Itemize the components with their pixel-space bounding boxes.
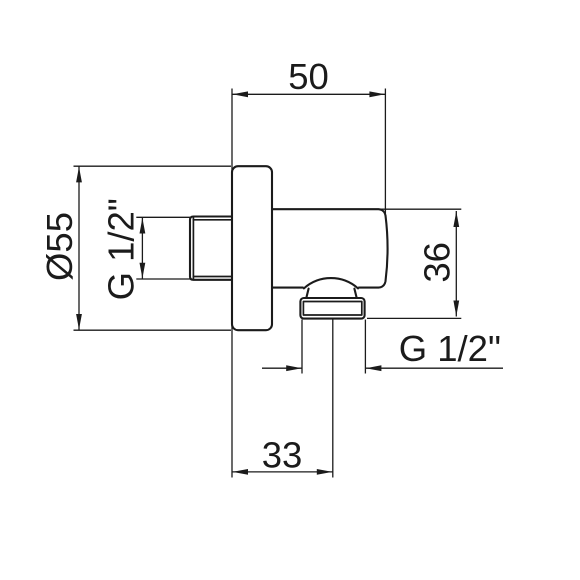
arrowhead dim 36 up	[453, 211, 459, 227]
dimension line G 1/2 bottom, left segment	[262, 367, 302, 369]
arrowhead dim G 1/2 bottom pointing left	[366, 365, 382, 371]
extension line (nut right, for bottom dim G 1/2)	[364, 320, 366, 374]
wall thread G 1/2 (left male connector)	[190, 217, 232, 280]
arrowhead dim G 1/2 left up	[140, 218, 146, 234]
extension line (right end of body, for dim 50)	[384, 89, 386, 215]
extension line (nut left, for bottom dim G 1/2)	[301, 320, 303, 374]
dimension line 36	[455, 211, 457, 317]
svg-text:33: 33	[262, 434, 303, 475]
extension line (outlet axis, for dim 33)	[332, 320, 334, 478]
arrowhead dim 50 right	[369, 91, 385, 97]
svg-text:50: 50	[288, 56, 329, 97]
outlet dome (bell boss on underside of body)	[304, 278, 359, 298]
outlet nut thread G 1/2 (bottom connector)	[300, 298, 364, 319]
extension line (wall face, shared by dims 50 and 33)	[231, 89, 233, 478]
extension line (flange top, for dim Ø55)	[74, 165, 232, 167]
svg-text:Ø55: Ø55	[39, 212, 80, 281]
dimension line 50	[232, 93, 385, 95]
extension line (wall thread bottom, for left dim G 1/2)	[136, 278, 190, 280]
arrowhead dim 50 left	[232, 91, 248, 97]
svg-text:G 1/2": G 1/2"	[399, 328, 501, 369]
dimension line Ø55	[78, 166, 80, 330]
arrowhead dim 36 down	[453, 301, 459, 317]
dimension line G 1/2 left	[141, 217, 143, 279]
arrowhead dim Ø55 down	[76, 314, 82, 330]
flange escutcheon Ø55 (wall plate, side view)	[232, 166, 272, 330]
arrowhead dim G 1/2 left down	[140, 263, 146, 279]
arrowhead dim 33 left	[232, 469, 248, 475]
dimension line 33	[232, 471, 333, 473]
body (horizontal elbow body, side view)	[260, 209, 388, 287]
extension line (wall thread top, for left dim G 1/2)	[136, 216, 190, 218]
extension line (flange bottom, for dim Ø55)	[74, 329, 232, 331]
dimension line G 1/2 bottom, right segment	[366, 367, 503, 369]
svg-text:G 1/2": G 1/2"	[101, 198, 142, 300]
extension line (body top, for dim 36)	[378, 208, 461, 210]
extension line (nut bottom, for dim 36)	[367, 317, 461, 319]
svg-text:36: 36	[417, 242, 458, 283]
arrowhead dim 33 right	[317, 469, 333, 475]
arrowhead dim Ø55 up	[76, 167, 82, 183]
arrowhead dim G 1/2 bottom pointing right	[286, 365, 302, 371]
